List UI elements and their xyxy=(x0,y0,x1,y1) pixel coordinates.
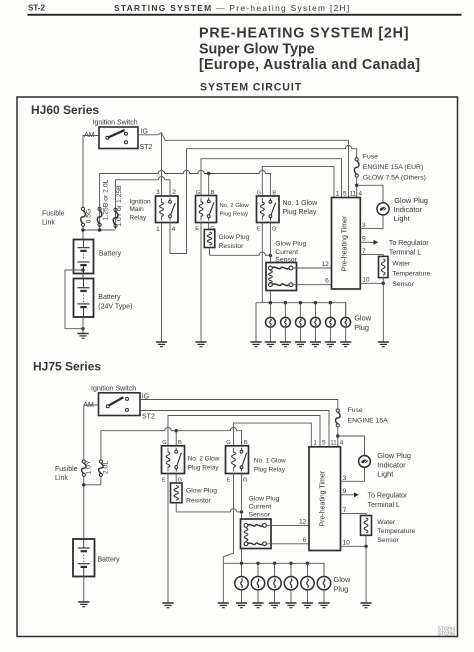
wire bus to glow plug 4 xyxy=(314,303,316,318)
ignition main relay xyxy=(156,196,179,223)
water temperature sensor HJ75 xyxy=(361,516,372,536)
wire sensor to timer pin 12 HJ75 xyxy=(266,524,309,526)
svg-text:Relay: Relay xyxy=(129,214,147,221)
svg-text:1: 1 xyxy=(156,226,160,233)
wire bus to glow plug 3 HJ75 xyxy=(274,563,276,576)
wire glow plug 5 to ground xyxy=(329,327,331,342)
junction resistor to No.1 relay pin G HJ75 xyxy=(240,510,243,513)
glow plug 5 xyxy=(326,317,336,327)
ground battery xyxy=(77,334,88,339)
ground glow plug 1 xyxy=(265,342,276,347)
wire ST2 to timer pin 11 HJ75 xyxy=(140,411,329,447)
svg-text:G: G xyxy=(226,440,230,446)
junction battery bottom xyxy=(81,327,84,330)
wire AM to fusible link xyxy=(83,136,99,208)
wire timer pin 10 xyxy=(360,282,383,284)
wire sensor to timer pin 12 xyxy=(293,267,332,269)
svg-text:Temperature: Temperature xyxy=(377,528,415,535)
wire branch to No.2 relay pin B xyxy=(208,174,210,196)
ground glow plug 2 HJ75 xyxy=(252,603,263,608)
pre-heating timer U2 xyxy=(309,447,341,551)
svg-text:5: 5 xyxy=(343,190,347,197)
svg-text:Resistor: Resistor xyxy=(219,243,245,250)
svg-text:Terminal L: Terminal L xyxy=(389,249,421,256)
glow plug 3 HJ75 xyxy=(268,577,281,590)
svg-text:Pre-heating Timer: Pre-heating Timer xyxy=(319,470,326,526)
ground glow plug 3 HJ75 xyxy=(269,603,280,608)
pre-heating timer U1 xyxy=(332,198,361,290)
wire glow plug 4 to ground HJ75 xyxy=(290,590,292,603)
svg-text:4: 4 xyxy=(340,440,344,447)
svg-text:Plug: Plug xyxy=(334,584,349,593)
junction fusible bus left xyxy=(81,228,84,231)
svg-text:Fusible: Fusible xyxy=(55,466,78,473)
svg-text:Main: Main xyxy=(129,206,144,213)
svg-text:Plug Relay: Plug Relay xyxy=(283,209,317,216)
battery 12V xyxy=(74,240,94,274)
svg-text:4: 4 xyxy=(172,226,176,233)
svg-text:Fuse: Fuse xyxy=(348,407,363,414)
wire fusible link to battery HJ75 xyxy=(83,476,85,539)
battery 24V type xyxy=(74,279,94,318)
ground glow plug 1 HJ75 xyxy=(236,603,247,608)
svg-text:Water: Water xyxy=(392,260,411,267)
wire fuse to indicator HJ75 xyxy=(338,436,365,456)
svg-text:Water: Water xyxy=(377,519,396,526)
svg-text:G: G xyxy=(257,190,261,196)
wire No.1 relay pin E to bus HJ75 xyxy=(223,474,233,564)
wire fusible link 2 join HJ75 xyxy=(84,484,101,486)
glow plug 6 HJ75 xyxy=(317,577,330,590)
wire timer pin 9 to regulator HJ75 xyxy=(341,494,355,496)
svg-text:1.0Y: 1.0Y xyxy=(85,460,92,474)
junction fusible bus mid xyxy=(98,228,101,231)
junction B feed to No.2 relay xyxy=(207,172,210,175)
svg-text:9: 9 xyxy=(343,488,347,495)
svg-text:ST-2: ST-2 xyxy=(28,4,45,13)
ground glow plug 5 HJ75 xyxy=(302,603,313,608)
ground battery HJ75 xyxy=(78,602,89,607)
glow plug 3 xyxy=(296,317,306,327)
svg-text:Plug: Plug xyxy=(354,323,369,332)
svg-text:ST2: ST2 xyxy=(140,144,153,151)
svg-text:Glow Plug: Glow Plug xyxy=(377,451,411,460)
svg-text:STARTING SYSTEM — Pre-heating: STARTING SYSTEM — Pre-heating System [2H… xyxy=(114,3,351,13)
wire timer pin 10 HJ75 xyxy=(341,545,367,547)
svg-text:Ignition Switch: Ignition Switch xyxy=(91,385,136,392)
ground glow plug 4 HJ75 xyxy=(285,603,296,608)
svg-text:Indicator: Indicator xyxy=(377,460,406,469)
wire No.1 relay coil to timer pin 1 HJ75 xyxy=(234,423,312,447)
wire bus to glow plug 1 xyxy=(269,303,271,318)
fuse ENGINE 15A xyxy=(354,158,359,178)
wire pin 10 to ground xyxy=(382,283,384,342)
svg-text:1.0Y or 1.25B: 1.0Y or 1.25B xyxy=(116,185,123,227)
svg-text:HJ60 Series: HJ60 Series xyxy=(31,103,99,117)
glow plug 6 xyxy=(341,317,351,327)
svg-text:Plug Relay: Plug Relay xyxy=(254,466,286,473)
wire battery to ground HJ75 xyxy=(83,577,85,603)
svg-text:E: E xyxy=(257,227,261,233)
wire No.1 relay coil to timer pin 1 xyxy=(262,166,334,197)
svg-text:Super Glow Type: Super Glow Type xyxy=(199,41,315,57)
svg-text:11: 11 xyxy=(350,190,357,197)
glow plug current sensor HJ75 xyxy=(241,519,272,549)
wire IG branch to ignition main relay pin 3 xyxy=(161,133,163,196)
svg-text:Pre-heating Timer: Pre-heating Timer xyxy=(341,215,348,271)
wire AM to fusible link HJ75 xyxy=(84,405,99,460)
wire branch to No.2 relay pin B HJ75 xyxy=(175,431,177,446)
wire pin 10 to ground HJ75 xyxy=(365,546,367,603)
glow plug 2 HJ75 xyxy=(251,577,264,590)
wire glow plug 5 to ground HJ75 xyxy=(307,590,309,603)
svg-text:1.25B or 2.0L: 1.25B or 2.0L xyxy=(102,179,109,220)
ignition switch SW1 xyxy=(99,127,138,149)
wire IG to timer pin 11 xyxy=(138,133,349,198)
wire glow plug 2 to ground xyxy=(284,327,286,342)
svg-text:1: 1 xyxy=(336,190,340,197)
svg-text:Plug Relay: Plug Relay xyxy=(220,211,249,217)
wire bus to glow plug 1 HJ75 xyxy=(241,563,243,576)
svg-text:Glow: Glow xyxy=(334,575,352,584)
svg-text:Light: Light xyxy=(377,470,393,479)
wire sensor bottom HJ75 xyxy=(365,535,367,546)
wire ignition main relay pin 4 to fuse xyxy=(170,145,357,253)
ground glow plug 2 xyxy=(280,342,291,347)
junction fuse output HJ75 xyxy=(336,434,339,437)
svg-text:Indicator: Indicator xyxy=(394,205,423,214)
svg-text:Fusible: Fusible xyxy=(42,211,65,218)
svg-text:2.0L: 2.0L xyxy=(103,461,110,474)
wire No.2 relay coil to timer pin 5 xyxy=(201,159,342,198)
svg-text:6: 6 xyxy=(325,277,329,284)
junction B feed No.2 relay HJ75 xyxy=(175,429,178,432)
ground glow plug 4 xyxy=(310,342,321,347)
wire bus to glow plug 2 xyxy=(284,303,286,318)
glow plug 1 xyxy=(266,317,276,327)
wire glow plug 3 to ground HJ75 xyxy=(274,590,276,603)
svg-text:G: G xyxy=(196,190,200,196)
wire battery to ground xyxy=(82,317,84,334)
wire sensor to timer pin 6 HJ75 xyxy=(266,543,309,545)
wire fusible link 2 bottom HJ75 xyxy=(100,476,102,484)
svg-text:G: G xyxy=(243,478,247,484)
ground under ignition main relay xyxy=(156,342,167,347)
junction bus plug 1 HJ75 xyxy=(240,562,243,565)
svg-text:3: 3 xyxy=(156,189,160,196)
wire timer pin 7 to water temp sensor xyxy=(360,255,383,257)
junction bus plug 3 HJ75 xyxy=(273,562,276,565)
svg-text:B: B xyxy=(272,190,276,196)
svg-text:ENGINE 15A: ENGINE 15A xyxy=(348,417,389,424)
svg-text:No. 1 Glow: No. 1 Glow xyxy=(283,200,319,207)
wire 24V bypass xyxy=(65,270,83,329)
svg-text:Current: Current xyxy=(275,249,298,256)
svg-text:E: E xyxy=(195,226,199,232)
header rule xyxy=(28,14,462,16)
fusible link 1.0Y or 1.25B xyxy=(113,208,118,227)
junction bus plug 3 xyxy=(299,301,302,304)
fusible link 1.25B or 2.0L xyxy=(97,207,102,226)
wire glow plug bus xyxy=(256,303,346,318)
wire fuse to timer pin 4 xyxy=(356,177,358,197)
svg-text:Fuse: Fuse xyxy=(363,153,378,160)
svg-text:(24V Type): (24V Type) xyxy=(98,304,132,311)
wire glow plug 1 to ground xyxy=(269,327,271,342)
svg-text:10: 10 xyxy=(362,277,370,284)
svg-text:Glow: Glow xyxy=(354,314,372,323)
wire sensor to timer pin 6 xyxy=(293,284,332,286)
ground under No.2 relay HJ75 xyxy=(162,603,173,608)
svg-text:B: B xyxy=(178,440,182,446)
wire fusible link 1 to battery xyxy=(82,226,84,239)
relay No.2 glow plug HJ75 xyxy=(162,446,185,474)
svg-text:4: 4 xyxy=(358,190,362,197)
ground water temp sensor xyxy=(378,342,389,347)
svg-text:[Europe, Australia and Canada]: [Europe, Australia and Canada] xyxy=(199,57,420,73)
wire sensor output to bus HJ75 xyxy=(241,549,243,564)
glow plug 5 HJ75 xyxy=(301,577,314,590)
ground at bus left HJ75 xyxy=(218,603,229,608)
svg-text:No. 2 Glow: No. 2 Glow xyxy=(220,203,250,209)
ground at bus left xyxy=(250,342,261,347)
svg-text:B: B xyxy=(211,190,215,196)
junction bus plug 5 xyxy=(329,301,332,304)
wire bus left leg to ground HJ75 xyxy=(222,563,224,603)
svg-text:10: 10 xyxy=(343,540,351,547)
svg-text:To Regulator: To Regulator xyxy=(389,240,429,247)
ground water temp sensor HJ75 xyxy=(361,603,372,608)
svg-text:Light: Light xyxy=(394,214,410,223)
wire indicator light to timer pin 3 xyxy=(360,215,383,229)
svg-text:Link: Link xyxy=(55,475,68,482)
wire No.2 relay pin G to resistor xyxy=(208,223,210,230)
svg-text:Glow Plug: Glow Plug xyxy=(219,234,250,241)
wire timer pin 9 to regulator xyxy=(360,241,374,243)
svg-text:E: E xyxy=(227,478,231,484)
wire glow plug bus HJ75 xyxy=(223,563,324,576)
wire bus to glow plug 2 HJ75 xyxy=(257,563,259,576)
junction bus plug 5 HJ75 xyxy=(306,562,309,565)
ground glow plug 6 HJ75 xyxy=(318,603,329,608)
wire fusible link 2 riser xyxy=(99,174,101,229)
relay No.1 glow plug xyxy=(257,196,280,223)
svg-text:Glow Plug: Glow Plug xyxy=(186,487,217,494)
wire bus to glow plug 5 HJ75 xyxy=(307,563,309,576)
arrow to regulator xyxy=(374,240,379,245)
ground glow plug 3 xyxy=(295,342,306,347)
junction fusible bus HJ75 xyxy=(82,483,85,486)
outer border frame xyxy=(17,97,458,637)
glow plug current sensor xyxy=(266,263,297,291)
svg-text:B: B xyxy=(244,440,248,446)
fusible link 1.0Y xyxy=(82,460,87,477)
svg-text:No. 1 Glow: No. 1 Glow xyxy=(254,457,286,464)
svg-text:Battery: Battery xyxy=(99,251,122,258)
svg-text:ST2: ST2 xyxy=(142,414,155,421)
svg-text:2: 2 xyxy=(172,189,176,196)
svg-text:6: 6 xyxy=(303,537,307,544)
svg-text:ENGINE 15A (EUR): ENGINE 15A (EUR) xyxy=(363,164,423,171)
relay No.2 glow plug xyxy=(196,196,217,223)
wire resistor to current sensor xyxy=(210,248,271,256)
junction pin 10 HJ75 xyxy=(364,545,367,548)
svg-text:GLOW 7.5A (Others): GLOW 7.5A (Others) xyxy=(363,174,426,181)
junction bus plug 4 HJ75 xyxy=(289,562,292,565)
wire sensor output to glow plug bus xyxy=(269,291,271,303)
wire fuse to timer pin 4 HJ75 xyxy=(337,427,339,447)
junction fuse output xyxy=(355,184,358,187)
svg-text:12: 12 xyxy=(299,518,307,525)
wire No.1 relay pin G to current sensor xyxy=(269,223,271,263)
junction bus plug 1 xyxy=(269,301,272,304)
wire between batteries xyxy=(82,274,84,279)
wire B feed to No.1 relay HJ75 xyxy=(101,428,242,460)
junction battery tap xyxy=(81,268,84,271)
wire No.2 relay pin E to ground xyxy=(200,223,202,343)
svg-text:G: G xyxy=(272,227,276,233)
wire No.1 relay pin G to sensor HJ75 xyxy=(241,474,243,520)
wire fusible link 3 to ignition main relay pin 2 xyxy=(116,177,171,196)
svg-text:0.5G: 0.5G xyxy=(86,209,93,224)
svg-text:To Regulator: To Regulator xyxy=(368,492,408,499)
battery HJ75 xyxy=(73,539,95,577)
svg-text:Sensor: Sensor xyxy=(392,281,414,288)
junction resistor to No.1 relay pin G xyxy=(269,254,272,257)
wire timer pin 7 to water sensor HJ75 xyxy=(341,514,367,516)
water temperature sensor xyxy=(379,256,389,277)
wire bus to glow plug 3 xyxy=(299,303,301,318)
arrow to regulator HJ75 xyxy=(354,492,359,497)
svg-text:7: 7 xyxy=(343,507,347,514)
wire resistor to current sensor HJ75 xyxy=(176,503,241,512)
svg-text:Terminal L: Terminal L xyxy=(368,502,400,509)
svg-text:Ignition Switch: Ignition Switch xyxy=(93,119,138,126)
svg-text:Resistor: Resistor xyxy=(186,497,212,504)
svg-text:Link: Link xyxy=(42,220,55,227)
svg-text:E: E xyxy=(162,478,166,484)
ground glow plug 5 xyxy=(325,342,336,347)
svg-text:Temperature: Temperature xyxy=(392,271,430,278)
wire ignition main relay pin 1 to ground xyxy=(161,223,163,343)
svg-text:PRE-HEATING SYSTEM [2H]: PRE-HEATING SYSTEM [2H] xyxy=(199,26,409,42)
wire glow plug 6 to ground xyxy=(345,327,347,342)
svg-text:9: 9 xyxy=(362,236,366,243)
svg-text:Glow Plug: Glow Plug xyxy=(249,495,280,502)
junction bus plug 2 xyxy=(284,301,287,304)
svg-text:HJ75 Series: HJ75 Series xyxy=(33,360,101,374)
wire No.2 relay coil to timer pin 5 HJ75 xyxy=(168,416,320,447)
wire fusible bus xyxy=(83,229,116,231)
wire glow plug 1 to ground HJ75 xyxy=(241,590,243,603)
wire No.1 relay pin E to glow plug bus xyxy=(261,223,263,303)
glow plug 1 HJ75 xyxy=(235,577,248,590)
svg-text:Plug Relay: Plug Relay xyxy=(188,465,220,472)
glow plug 4 HJ75 xyxy=(284,577,297,590)
glow plug indicator light HJ75 xyxy=(359,456,371,468)
svg-text:ST0295: ST0295 xyxy=(437,632,455,638)
svg-text:Battery: Battery xyxy=(98,556,121,563)
glow plug 2 xyxy=(281,317,291,327)
wire glow plug 3 to ground xyxy=(299,327,301,342)
wire bus to glow plug 4 HJ75 xyxy=(290,563,292,576)
svg-text:12: 12 xyxy=(321,261,329,268)
svg-text:Sensor: Sensor xyxy=(249,511,271,518)
wire glow plug 2 to ground HJ75 xyxy=(257,590,259,603)
wire No.2 relay pin E to ground HJ75 xyxy=(167,474,169,604)
ignition switch SW2 xyxy=(99,393,141,416)
svg-text:5: 5 xyxy=(322,440,326,447)
svg-text:3: 3 xyxy=(343,475,347,482)
wire water temp sensor to pin10 node xyxy=(382,278,384,284)
svg-text:Ignition: Ignition xyxy=(129,199,151,206)
wire fuse to indicator light xyxy=(357,185,383,203)
junction bus plug 2 HJ75 xyxy=(256,562,259,565)
fuse ENGINE 15A HJ75 xyxy=(336,409,341,427)
wire IG to fuse HJ75 xyxy=(140,400,338,409)
wire fusible link 3 riser xyxy=(115,180,117,229)
glow plug resistor HJ75 xyxy=(171,483,183,503)
junction bus plug 4 xyxy=(314,301,317,304)
glow plug resistor xyxy=(204,230,215,248)
wire bus left leg to ground xyxy=(255,303,257,342)
wire B feed from fusible link to No.1 relay pin B xyxy=(100,170,271,195)
wire bus to glow plug 6 HJ75 xyxy=(323,563,325,576)
glow plug indicator light xyxy=(377,203,389,215)
wire No.2 relay pin G to resistor HJ75 xyxy=(175,474,177,484)
svg-text:11: 11 xyxy=(330,440,337,447)
fusible link 2.0L xyxy=(99,460,104,477)
ground under No.2 relay xyxy=(195,342,206,347)
junction pin 10 water sensor xyxy=(382,282,385,285)
wire glow plug 6 to ground HJ75 xyxy=(323,590,325,603)
relay No.1 glow plug HJ75 xyxy=(226,446,249,474)
svg-text:Glow Plug: Glow Plug xyxy=(394,196,428,205)
wire glow plug 4 to ground xyxy=(314,327,316,342)
svg-text:Current: Current xyxy=(249,503,272,510)
glow plug 4 xyxy=(311,317,321,327)
svg-text:IG: IG xyxy=(141,128,148,135)
svg-text:Sensor: Sensor xyxy=(377,537,399,544)
ground glow plug 6 xyxy=(340,342,351,347)
svg-text:SYSTEM CIRCUIT: SYSTEM CIRCUIT xyxy=(200,81,302,93)
svg-text:Glow Plug: Glow Plug xyxy=(275,240,306,247)
wire indicator to timer pin 3 HJ75 xyxy=(341,467,365,481)
svg-text:G: G xyxy=(162,440,166,446)
svg-text:1: 1 xyxy=(313,440,317,447)
svg-text:Battery: Battery xyxy=(98,294,121,301)
wire bus to glow plug 6 xyxy=(345,303,347,318)
fusible link 0.5G xyxy=(81,207,86,226)
svg-text:AM: AM xyxy=(83,402,94,409)
svg-text:No. 2 Glow: No. 2 Glow xyxy=(188,456,220,463)
wire bus to glow plug 5 xyxy=(329,303,331,318)
